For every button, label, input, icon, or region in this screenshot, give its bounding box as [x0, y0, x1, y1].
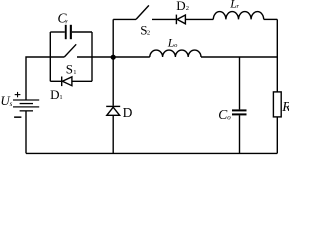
svg-text:2: 2	[186, 5, 189, 12]
svg-text:S: S	[66, 62, 73, 77]
svg-text:D: D	[176, 0, 185, 13]
svg-text:1: 1	[59, 94, 62, 101]
svg-text:s: s	[10, 100, 13, 108]
svg-text:o: o	[227, 114, 231, 122]
svg-text:1: 1	[73, 69, 76, 76]
svg-text:R: R	[281, 100, 289, 115]
svg-text:D: D	[123, 105, 133, 120]
svg-text:D: D	[50, 87, 59, 102]
svg-text:o: o	[174, 42, 178, 49]
svg-text:r: r	[237, 3, 240, 10]
svg-text:r: r	[65, 19, 68, 26]
svg-text:2: 2	[147, 30, 150, 37]
